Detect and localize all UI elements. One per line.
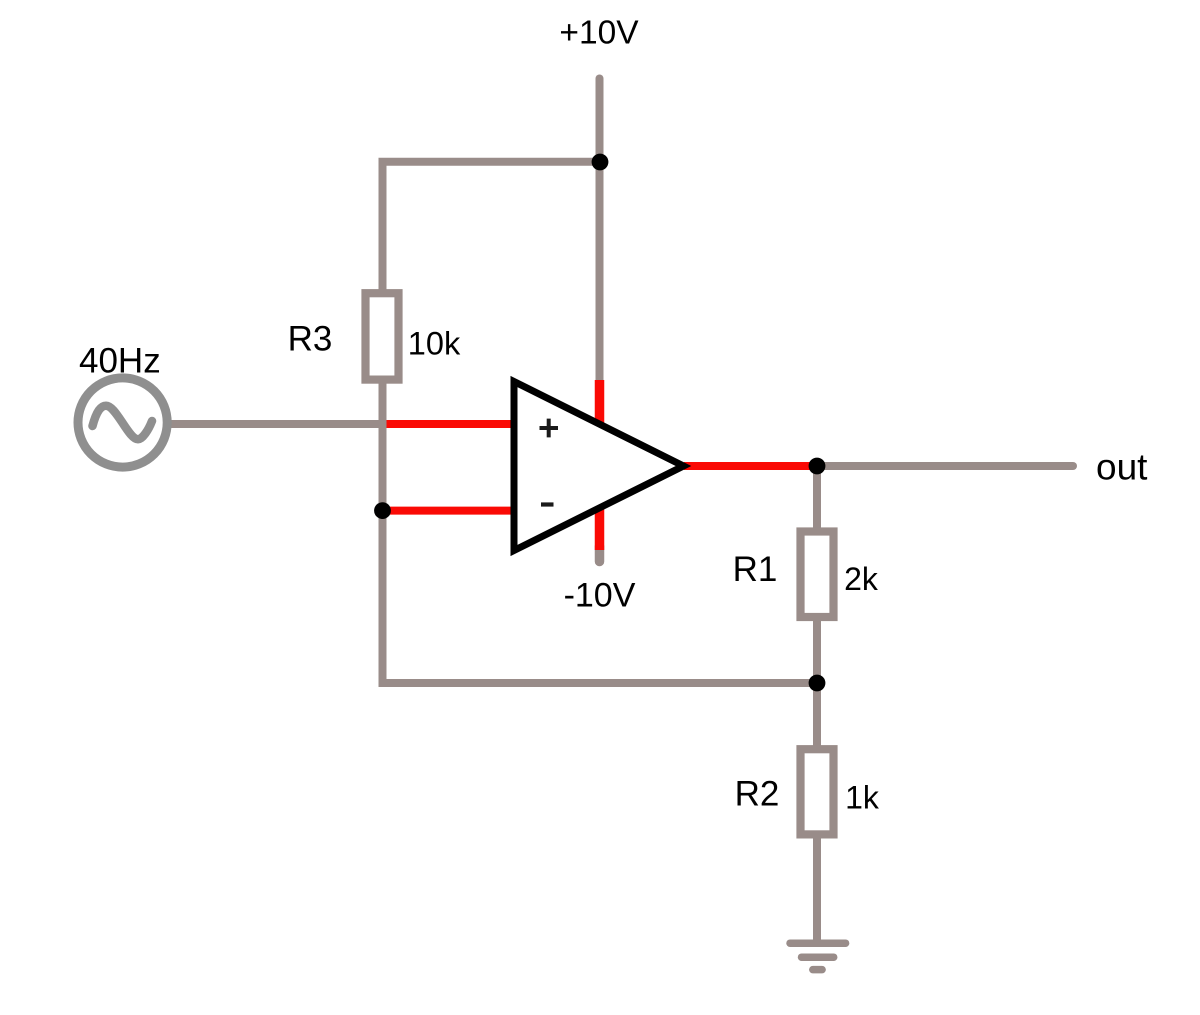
wire R2 bottom to ground — [813, 825, 821, 940]
voltage source sine mark — [93, 406, 153, 440]
ground bar 1 — [790, 939, 846, 947]
svg-text:-10V: -10V — [564, 577, 636, 615]
resistor R3 body — [366, 293, 399, 379]
svg-text:R3: R3 — [288, 319, 333, 358]
svg-text:10k: 10k — [408, 326, 461, 362]
op-amp - input mark — [541, 502, 554, 506]
wire node to R2 top — [813, 683, 821, 760]
junction at R1/R2 node — [809, 675, 826, 692]
wire +10V rail down to junction — [596, 79, 604, 163]
svg-text:out: out — [1096, 446, 1148, 487]
op-amp U1 triangle — [514, 382, 684, 551]
svg-text:R1: R1 — [733, 550, 778, 589]
wire output to out label — [817, 462, 1073, 470]
op-amp U1 V+ pin (red) — [595, 380, 605, 428]
wire top horizontal + left vertical down to R3 — [383, 162, 601, 295]
junction at inverting input node — [374, 502, 391, 519]
red output wire — [684, 462, 817, 470]
red wire to - input — [383, 507, 515, 515]
op-amp + input mark — [540, 419, 559, 438]
wire junction down to op-amp V+ pin — [596, 162, 604, 380]
op-amp U1 V- pin (red) — [595, 503, 605, 550]
wire R1 top — [813, 466, 821, 545]
ground bar 2 — [802, 953, 834, 961]
resistor R2 body — [801, 749, 834, 834]
svg-text:R2: R2 — [735, 774, 780, 813]
junction at +10V rail — [592, 154, 609, 171]
svg-text:2k: 2k — [844, 561, 879, 597]
svg-text:1k: 1k — [845, 779, 880, 815]
junction at output node — [809, 458, 826, 475]
wire feedback horizontal to R1/R2 node — [383, 511, 818, 683]
svg-text:+10V: +10V — [559, 15, 639, 52]
wire -10V stub — [595, 546, 605, 562]
wire R1 bottom to node — [813, 605, 821, 683]
wire from source to input crossing — [168, 420, 387, 428]
red wire to + input — [387, 420, 515, 428]
wire R3 bottom through input crossing down to feedback node — [379, 382, 387, 683]
voltage source V1 circle — [78, 378, 167, 467]
resistor R1 body — [801, 532, 834, 618]
svg-text:40Hz: 40Hz — [79, 341, 161, 380]
ground bar 3 — [813, 966, 822, 974]
